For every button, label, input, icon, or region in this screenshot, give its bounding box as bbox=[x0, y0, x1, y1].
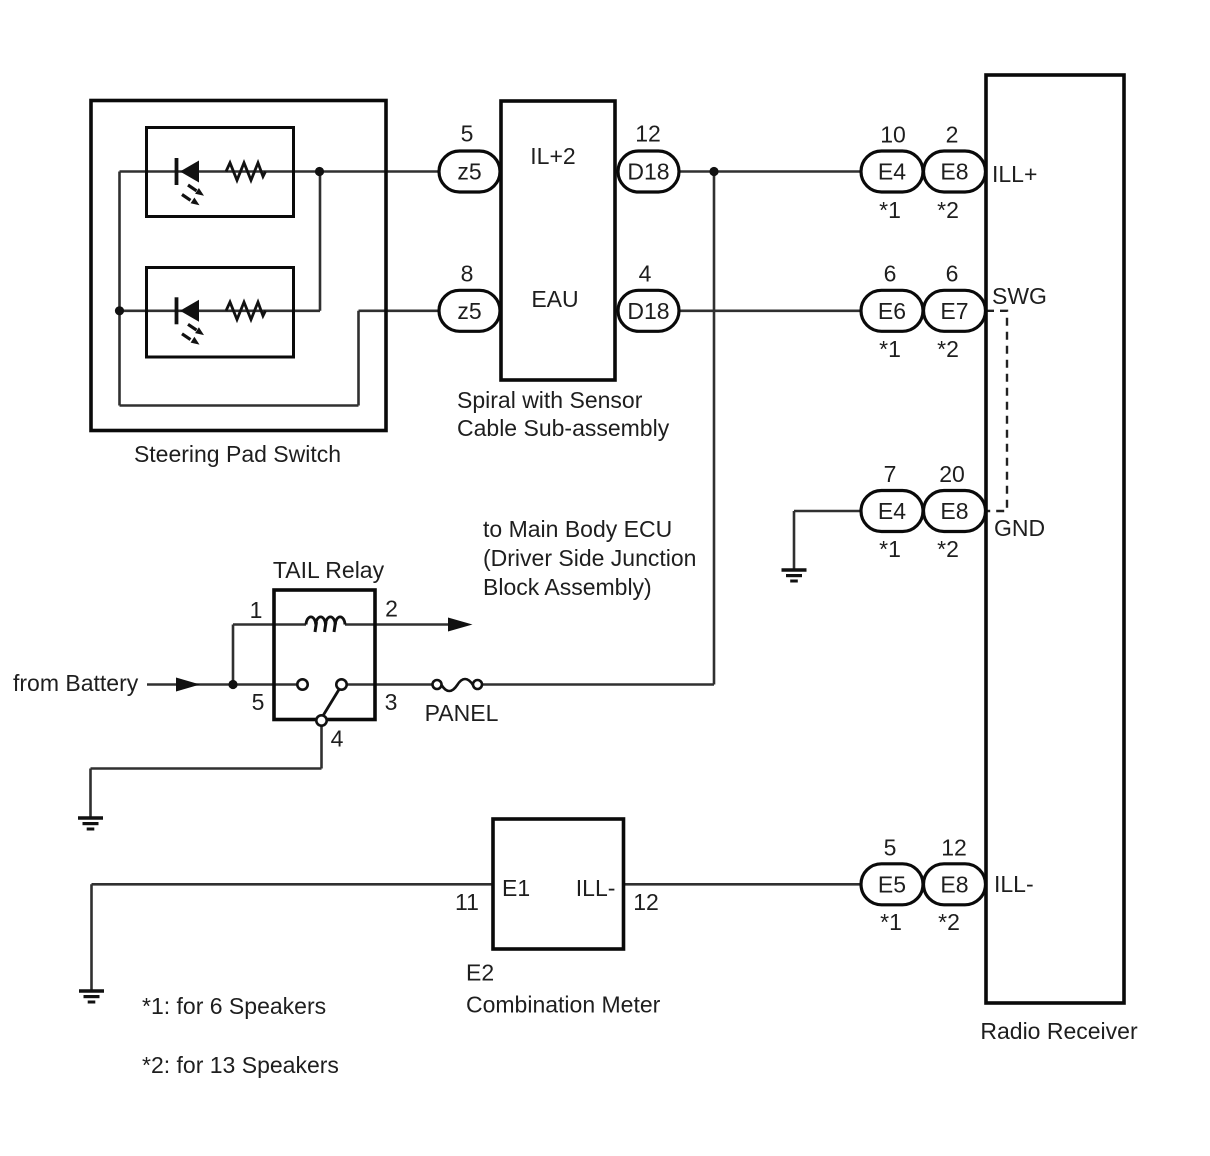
svg-text:*2: for 13 Speakers: *2: for 13 Speakers bbox=[142, 1052, 339, 1078]
svg-text:*1: *1 bbox=[879, 336, 901, 362]
svg-text:*2: *2 bbox=[937, 536, 959, 562]
svg-text:10: 10 bbox=[880, 122, 906, 148]
svg-text:PANEL: PANEL bbox=[425, 700, 499, 726]
svg-text:SWG: SWG bbox=[992, 283, 1047, 309]
svg-text:5: 5 bbox=[884, 835, 897, 861]
svg-text:Cable Sub-assembly: Cable Sub-assembly bbox=[457, 415, 670, 441]
svg-text:Radio Receiver: Radio Receiver bbox=[980, 1018, 1138, 1044]
svg-text:2: 2 bbox=[385, 596, 398, 622]
svg-text:Combination Meter: Combination Meter bbox=[466, 992, 661, 1018]
svg-text:12: 12 bbox=[633, 889, 659, 915]
svg-text:GND: GND bbox=[994, 515, 1045, 541]
svg-text:*1: *1 bbox=[879, 197, 901, 223]
svg-text:E7: E7 bbox=[940, 298, 968, 324]
svg-text:to Main Body ECU: to Main Body ECU bbox=[483, 516, 672, 542]
svg-text:*1: for 6 Speakers: *1: for 6 Speakers bbox=[142, 993, 326, 1019]
svg-text:D18: D18 bbox=[627, 159, 669, 185]
svg-text:ILL-: ILL- bbox=[576, 875, 616, 901]
svg-text:5: 5 bbox=[252, 689, 265, 715]
svg-text:IL+2: IL+2 bbox=[530, 143, 575, 169]
svg-text:1: 1 bbox=[250, 597, 263, 623]
svg-text:11: 11 bbox=[455, 889, 479, 915]
svg-text:7: 7 bbox=[884, 461, 897, 487]
svg-text:*2: *2 bbox=[937, 336, 959, 362]
svg-text:6: 6 bbox=[946, 261, 959, 287]
svg-text:20: 20 bbox=[939, 461, 965, 487]
svg-text:ILL-: ILL- bbox=[994, 871, 1034, 897]
svg-text:6: 6 bbox=[884, 261, 897, 287]
svg-text:E5: E5 bbox=[878, 871, 906, 897]
svg-text:E4: E4 bbox=[878, 159, 906, 185]
svg-text:*2: *2 bbox=[937, 197, 959, 223]
svg-text:D18: D18 bbox=[627, 298, 669, 324]
svg-text:E2: E2 bbox=[466, 960, 494, 986]
svg-text:*1: *1 bbox=[879, 536, 901, 562]
svg-text:from Battery: from Battery bbox=[13, 670, 139, 696]
svg-text:E4: E4 bbox=[878, 498, 906, 524]
svg-text:4: 4 bbox=[639, 261, 652, 287]
svg-text:*1: *1 bbox=[880, 909, 902, 935]
svg-text:*2: *2 bbox=[938, 909, 960, 935]
svg-text:Block Assembly): Block Assembly) bbox=[483, 574, 652, 600]
svg-text:E8: E8 bbox=[940, 159, 968, 185]
svg-text:E8: E8 bbox=[940, 871, 968, 897]
svg-text:ILL+: ILL+ bbox=[992, 161, 1037, 187]
svg-text:E8: E8 bbox=[940, 498, 968, 524]
svg-text:12: 12 bbox=[635, 121, 661, 147]
svg-text:EAU: EAU bbox=[531, 286, 578, 312]
svg-text:5: 5 bbox=[461, 121, 474, 147]
svg-text:8: 8 bbox=[461, 261, 474, 287]
svg-text:4: 4 bbox=[331, 726, 344, 752]
svg-text:Spiral with Sensor: Spiral with Sensor bbox=[457, 387, 643, 413]
svg-text:z5: z5 bbox=[457, 298, 481, 324]
svg-text:3: 3 bbox=[385, 689, 398, 715]
svg-text:Steering Pad Switch: Steering Pad Switch bbox=[134, 441, 341, 467]
svg-text:TAIL Relay: TAIL Relay bbox=[273, 557, 385, 583]
svg-text:E6: E6 bbox=[878, 298, 906, 324]
svg-text:E1: E1 bbox=[502, 875, 530, 901]
svg-text:z5: z5 bbox=[457, 159, 481, 185]
svg-text:12: 12 bbox=[941, 835, 967, 861]
svg-text:(Driver Side Junction: (Driver Side Junction bbox=[483, 545, 696, 571]
svg-text:2: 2 bbox=[946, 122, 959, 148]
